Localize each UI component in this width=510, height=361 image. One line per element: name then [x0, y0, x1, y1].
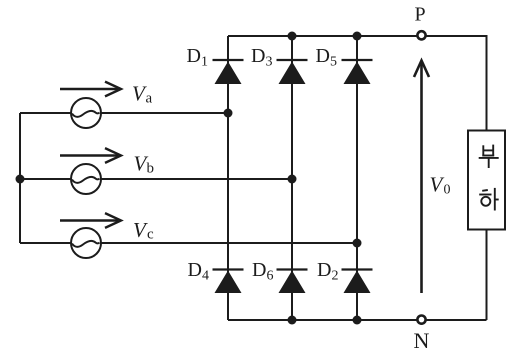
svg-text:V: V: [430, 173, 445, 197]
svg-text:D: D: [251, 45, 265, 67]
svg-text:a: a: [146, 91, 153, 107]
svg-text:2: 2: [332, 269, 339, 284]
svg-text:1: 1: [201, 55, 208, 70]
svg-text:b: b: [147, 160, 155, 176]
svg-text:4: 4: [202, 269, 209, 284]
svg-text:6: 6: [267, 269, 274, 284]
svg-text:N: N: [414, 328, 430, 353]
svg-text:c: c: [147, 226, 154, 242]
svg-text:D: D: [188, 259, 202, 281]
svg-text:P: P: [415, 4, 426, 26]
svg-text:D: D: [316, 45, 330, 67]
svg-text:5: 5: [330, 55, 337, 70]
svg-text:0: 0: [444, 182, 451, 197]
svg-text:V: V: [133, 218, 148, 242]
svg-text:D: D: [187, 45, 201, 67]
svg-text:D: D: [252, 259, 266, 281]
svg-text:3: 3: [266, 55, 273, 70]
svg-text:D: D: [317, 259, 331, 281]
